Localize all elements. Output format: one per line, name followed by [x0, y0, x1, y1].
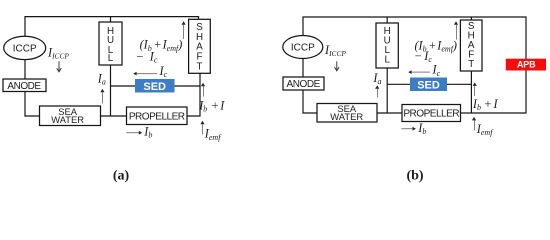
arrow left I_c a — [133, 64, 167, 79]
label I_ICCP b — [324, 43, 346, 58]
label Ib + I a — [198, 98, 225, 113]
wire shaft-bottom b — [470, 71, 472, 113]
arrow up near shaft a — [182, 21, 186, 39]
label minus I_c b — [414, 49, 432, 64]
arrow up Ib+I b — [473, 82, 477, 96]
svg-text:WATER: WATER — [51, 114, 84, 125]
wire anode-seawater a — [25, 92, 40, 117]
svg-text:SED: SED — [143, 81, 166, 93]
wire iccp-anode a — [24, 60, 26, 79]
SEA WATER box b — [317, 103, 377, 122]
wire top loop a — [25, 17, 199, 37]
svg-text:APB: APB — [517, 60, 536, 70]
wire sed b — [387, 83, 471, 85]
svg-text:ICCP: ICCP — [291, 43, 315, 54]
svg-text:ICCP: ICCP — [13, 43, 37, 54]
svg-text:Ib+I: Ib+I — [198, 98, 225, 113]
label I_emf a — [204, 127, 222, 142]
wire seawater-propeller a — [101, 115, 127, 117]
svg-text:ANODE: ANODE — [7, 81, 41, 92]
label minus I_c a — [136, 50, 158, 65]
arrow up I_a b — [375, 85, 379, 97]
wire hull stub b — [386, 17, 388, 23]
arrow right I_b b — [401, 121, 426, 136]
SED box a — [135, 79, 175, 93]
HULL box a — [99, 22, 122, 65]
HULL box b — [376, 23, 398, 68]
wire hull-bottom a — [110, 65, 112, 116]
arrow right I_b a — [126, 125, 152, 140]
wire hull-bottom b — [386, 68, 388, 113]
svg-text:ANODE: ANODE — [287, 79, 321, 90]
wire shaft stub b — [470, 17, 472, 20]
svg-text:T: T — [197, 61, 203, 72]
arrow up I_a a — [100, 89, 104, 104]
arrow up I_emf a — [200, 121, 204, 135]
label (Ib + Iemf) a — [140, 38, 183, 53]
wire sed a — [111, 85, 201, 87]
arrow up near shaft b — [454, 21, 458, 39]
arrow up Ib+I a — [201, 83, 205, 97]
caption (b) — [406, 169, 423, 184]
APB box b — [506, 59, 546, 71]
caption (a) — [113, 169, 130, 184]
SHAFT box a — [189, 19, 211, 73]
label Ib + I b — [472, 97, 499, 112]
svg-text:SED: SED — [417, 79, 440, 91]
ICCP source b — [283, 36, 323, 59]
ANODE box a — [3, 79, 46, 92]
svg-text:L: L — [108, 53, 114, 64]
svg-text:T: T — [468, 59, 474, 70]
svg-text:WATER: WATER — [330, 111, 363, 122]
wire anode-seawater b — [303, 90, 317, 113]
label (Ib + Iemf) b — [415, 38, 457, 53]
label I_ICCP a — [47, 46, 69, 61]
wire seawater-propeller b — [377, 112, 402, 114]
wire outer loop b — [303, 17, 526, 113]
arrow up I_emf b — [472, 117, 476, 130]
SEA WATER box a — [40, 106, 101, 126]
svg-text:PROPELLER: PROPELLER — [129, 112, 185, 123]
label I_a a — [97, 71, 106, 86]
PROPELLER box a — [127, 107, 188, 125]
label I_a b — [372, 71, 381, 86]
wire propeller-shaft a — [187, 73, 200, 116]
ANODE box b — [283, 77, 324, 90]
svg-text:(b): (b) — [406, 169, 423, 184]
PROPELLER box b — [402, 105, 461, 122]
SED box b — [410, 78, 447, 92]
svg-text:(a): (a) — [113, 169, 130, 184]
ICCP source a — [4, 36, 46, 59]
svg-text:PROPELLER: PROPELLER — [403, 109, 459, 120]
wire iccp-anode b — [302, 59, 304, 78]
arrow down I_ICCP a — [57, 61, 62, 72]
label I_emf b — [476, 122, 494, 137]
svg-text:Ib+I: Ib+I — [472, 97, 499, 112]
svg-text:L: L — [384, 55, 390, 66]
arrow down I_ICCP b — [335, 61, 340, 71]
wire hull stub a — [110, 17, 112, 22]
SHAFT box b — [460, 20, 482, 71]
arrow left I_c b — [408, 63, 440, 78]
